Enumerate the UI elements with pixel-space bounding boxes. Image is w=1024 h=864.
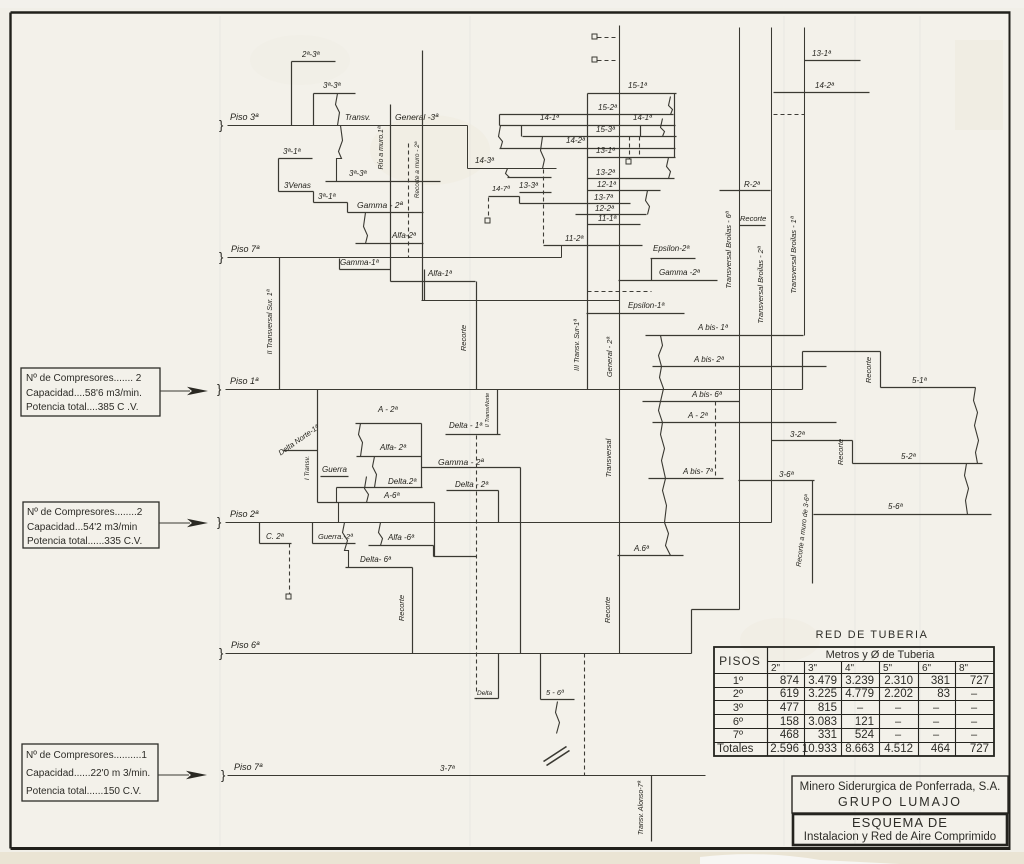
svg-text:–: – bbox=[971, 716, 978, 728]
wire 13-2 bbox=[588, 178, 675, 180]
svg-text:A - 2ª: A - 2ª bbox=[377, 405, 399, 414]
svg-text:2ª-3ª: 2ª-3ª bbox=[301, 50, 321, 59]
svg-text:–: – bbox=[971, 688, 978, 700]
wire 3-2 bbox=[772, 440, 853, 442]
wire vert 2-3 to piso3 bbox=[291, 62, 293, 126]
border frame bbox=[11, 11, 1011, 13]
wire vert rio a muro bbox=[390, 105, 392, 282]
wire branch 2-3 bbox=[292, 61, 336, 63]
svg-text:7º: 7º bbox=[733, 729, 743, 741]
svg-text:–: – bbox=[895, 716, 902, 728]
dashed drop 2 bbox=[639, 137, 641, 158]
svg-text:Gamma - 2ª: Gamma - 2ª bbox=[438, 457, 485, 467]
wire a bis-2 bbox=[653, 366, 827, 368]
svg-text:Piso 3ª: Piso 3ª bbox=[230, 112, 259, 122]
svg-text:13-1ª: 13-1ª bbox=[812, 49, 832, 58]
svg-text:13-7ª: 13-7ª bbox=[594, 193, 614, 202]
wire general-2 / transversal long vertical bbox=[619, 26, 621, 654]
svg-text:Transv. Alonso-7ª: Transv. Alonso-7ª bbox=[638, 780, 645, 835]
svg-text:13-2ª: 13-2ª bbox=[596, 168, 616, 177]
wire vert delta-1 bbox=[497, 390, 499, 435]
wire 3-6 bbox=[739, 480, 815, 482]
svg-text:12-2ª: 12-2ª bbox=[595, 204, 615, 213]
wire branch 3-1 bbox=[279, 158, 313, 160]
wire piso 7 upper main line bbox=[228, 257, 562, 259]
wire III transv sur vertical (cluster left boundary) bbox=[587, 94, 589, 390]
svg-text:477: 477 bbox=[780, 702, 799, 714]
svg-text:8": 8" bbox=[959, 663, 969, 674]
svg-text:3.083: 3.083 bbox=[808, 716, 837, 728]
wire step bbox=[433, 546, 435, 557]
wire gamma-2 vert long bbox=[520, 468, 522, 654]
svg-text:–: – bbox=[933, 702, 940, 714]
svg-text:Delta.2ª: Delta.2ª bbox=[388, 477, 417, 486]
svg-text:3.239: 3.239 bbox=[845, 675, 874, 687]
svg-text:727: 727 bbox=[970, 743, 989, 755]
svg-text:14-2ª: 14-2ª bbox=[566, 136, 586, 145]
svg-text:3º: 3º bbox=[733, 702, 743, 714]
wire a-6 left bbox=[318, 502, 435, 504]
wire 13-3 bbox=[520, 192, 552, 194]
wire vert 3-3 bbox=[313, 94, 315, 126]
wire vert delta-6 to piso6 bbox=[412, 568, 414, 654]
info box compressors piso 2 bbox=[23, 502, 159, 548]
svg-text:RED DE TUBERIA: RED DE TUBERIA bbox=[816, 629, 929, 641]
zigzag 5-1 to 5-2 bbox=[974, 388, 979, 464]
wire vert to gamma-2 bbox=[347, 203, 349, 213]
svg-text:Capacidad....58'6 m3/min.: Capacidad....58'6 m3/min. bbox=[26, 388, 142, 399]
wire piso1 end step up bbox=[802, 352, 804, 390]
svg-text:11-2ª: 11-2ª bbox=[565, 234, 584, 243]
svg-text:Nº de Compresores..........1: Nº de Compresores..........1 bbox=[26, 750, 147, 761]
svg-text:8.663: 8.663 bbox=[845, 743, 874, 755]
svg-text:Potencia total......335 C.V.: Potencia total......335 C.V. bbox=[27, 536, 142, 547]
svg-text:5 - 6ª: 5 - 6ª bbox=[546, 688, 564, 697]
svg-text:524: 524 bbox=[855, 729, 875, 741]
svg-text:Guerra: Guerra bbox=[322, 465, 347, 474]
svg-text:4.512: 4.512 bbox=[884, 743, 913, 755]
wire step horizontal bbox=[803, 351, 881, 353]
svg-text:Piso 2ª: Piso 2ª bbox=[230, 509, 259, 519]
svg-text:Potencia total......150 C.V.: Potencia total......150 C.V. bbox=[26, 786, 141, 797]
delta flag below piso 6 bbox=[498, 654, 500, 699]
wire 11-1 bbox=[588, 224, 641, 226]
svg-text:A - 2ª: A - 2ª bbox=[687, 411, 709, 420]
svg-text:Gamma -2ª: Gamma -2ª bbox=[659, 268, 701, 277]
wire vert delta-2 mid bbox=[498, 491, 500, 523]
wire branch 3-3 lower bbox=[326, 181, 441, 183]
svg-text:5-6ª: 5-6ª bbox=[888, 502, 904, 511]
wire delta-2 mid bbox=[447, 490, 499, 492]
wire 15-1 bbox=[588, 93, 677, 95]
svg-text:3ª-1ª: 3ª-1ª bbox=[318, 192, 337, 201]
wire gamma-2 mid bbox=[422, 467, 521, 469]
wire 12-2 bbox=[576, 214, 647, 216]
wire branch 3venas bbox=[279, 191, 314, 193]
svg-text:468: 468 bbox=[780, 729, 799, 741]
cluster left-side joints bbox=[499, 115, 501, 126]
wire guerra-2 bbox=[313, 543, 356, 545]
zigzag a-branch riser bbox=[659, 336, 671, 556]
svg-text:Transversal Broilas - 6ª: Transversal Broilas - 6ª bbox=[724, 211, 733, 288]
wire alfa-6 bbox=[369, 545, 434, 547]
wire step down bbox=[880, 352, 882, 388]
wire right vert a2-alfa2-delta2 bbox=[421, 424, 423, 488]
wire a bis-7 bbox=[649, 478, 724, 480]
info box compressors piso 7 bbox=[22, 744, 158, 801]
svg-text:4": 4" bbox=[845, 663, 855, 674]
wire junction to 11-2 bbox=[561, 246, 563, 258]
wire a-2 right bbox=[653, 422, 837, 424]
svg-text:15-2ª: 15-2ª bbox=[598, 103, 618, 112]
svg-text:14-3ª: 14-3ª bbox=[475, 156, 495, 165]
svg-text:3": 3" bbox=[808, 663, 818, 674]
svg-text:Nº de Compresores....... 2: Nº de Compresores....... 2 bbox=[26, 373, 142, 384]
wire 5-1 bbox=[881, 387, 976, 389]
dashed stub top 1 bbox=[598, 37, 618, 39]
svg-text:A.6ª: A.6ª bbox=[633, 544, 650, 553]
svg-text:121: 121 bbox=[855, 716, 874, 728]
wire 11-2 bbox=[544, 245, 643, 247]
svg-text:14-2ª: 14-2ª bbox=[815, 81, 835, 90]
zigzag alfa-2 to delta-2 bbox=[373, 457, 377, 488]
svg-text:Delta: Delta bbox=[477, 690, 493, 697]
dashed piso6 to piso7 bbox=[584, 654, 586, 776]
svg-text:3-6ª: 3-6ª bbox=[779, 470, 795, 479]
svg-text:874: 874 bbox=[780, 675, 800, 687]
wire recorte a muro de 3-6 vertical bbox=[812, 481, 814, 584]
zigzag 12-1 to 12-2 bbox=[646, 191, 650, 215]
open end slant mark bbox=[544, 747, 567, 762]
arrow to piso 7 bbox=[158, 774, 189, 776]
svg-text:–: – bbox=[933, 716, 940, 728]
zigzag a-2 to alfa-2 bbox=[359, 424, 363, 457]
wire vert epsilon to gamma bbox=[651, 259, 653, 281]
svg-text:15-3ª: 15-3ª bbox=[596, 125, 616, 134]
dashed a bis-6 to a bis-7 bbox=[715, 402, 717, 479]
title block company bbox=[792, 776, 1008, 813]
wire transversal broilas-1 vertical bbox=[804, 28, 806, 336]
svg-text:13-3ª: 13-3ª bbox=[519, 181, 539, 190]
wire branch gamma-2 upper bbox=[348, 212, 424, 214]
wire delta norte stub bbox=[284, 450, 318, 452]
svg-text:Alfa -6ª: Alfa -6ª bbox=[387, 533, 415, 542]
wire vert step to 300 bbox=[424, 270, 426, 301]
svg-text:Delta - 1ª: Delta - 1ª bbox=[449, 421, 483, 430]
svg-text:6º: 6º bbox=[733, 716, 743, 728]
wire vert 3-2 to 5-2 bbox=[852, 441, 854, 464]
svg-text:PISOS: PISOS bbox=[719, 654, 761, 668]
wire recorte stub bbox=[740, 225, 766, 227]
svg-text:Recorte: Recorte bbox=[740, 214, 766, 223]
wire a-6 right bbox=[618, 555, 684, 557]
wire transversal broilas-6 vertical bbox=[739, 28, 741, 610]
svg-text:381: 381 bbox=[931, 675, 950, 687]
dashed recorte a muro 2 bbox=[408, 144, 410, 258]
wire branch 3-1 second bbox=[314, 202, 348, 204]
svg-text:–: – bbox=[895, 729, 902, 741]
svg-text:Gamma - 2ª: Gamma - 2ª bbox=[357, 200, 404, 210]
wire delta-2 left bbox=[337, 487, 423, 489]
svg-text:Potencia total....385 C .V.: Potencia total....385 C .V. bbox=[26, 402, 138, 413]
svg-text:Recorte: Recorte bbox=[397, 595, 406, 621]
svg-text:Alfa-1ª: Alfa-1ª bbox=[427, 269, 453, 278]
dashed 14-7 drop bbox=[488, 198, 490, 219]
svg-text:Delta- 6ª: Delta- 6ª bbox=[360, 555, 392, 564]
dashed vertical cluster left bbox=[543, 170, 545, 246]
branch C-2 bbox=[259, 523, 261, 544]
svg-text:Recorte: Recorte bbox=[836, 439, 845, 465]
svg-text:12-1ª: 12-1ª bbox=[597, 180, 617, 189]
wire piso 6 main line bbox=[226, 653, 692, 655]
wire I transv vertical bbox=[317, 390, 319, 503]
wire vert 3-1 to 3venas bbox=[278, 159, 280, 192]
svg-text:13-1ª: 13-1ª bbox=[596, 146, 616, 155]
wire piso 1 main line bbox=[226, 389, 803, 391]
svg-text:–: – bbox=[895, 702, 902, 714]
step from transversal broilas-6 down to piso 6 bbox=[692, 609, 740, 611]
svg-text:14-7ª: 14-7ª bbox=[492, 184, 510, 193]
svg-text:Recorte: Recorte bbox=[459, 325, 468, 351]
svg-text:II TransvNorte: II TransvNorte bbox=[485, 393, 491, 427]
underline guerra bbox=[321, 476, 349, 478]
dashed horizontal y291 bbox=[588, 291, 652, 293]
svg-text:2.310: 2.310 bbox=[884, 675, 913, 687]
svg-text:Alfa-2ª: Alfa-2ª bbox=[391, 231, 417, 240]
wire epsilon-1 bbox=[587, 313, 685, 315]
transv alonso-7 vertical bbox=[651, 776, 653, 842]
svg-text:Transversal Broilas - 1ª: Transversal Broilas - 1ª bbox=[789, 216, 798, 293]
svg-text:}: } bbox=[219, 646, 224, 661]
svg-text:General -3ª: General -3ª bbox=[395, 112, 439, 122]
wire 5-2 bbox=[853, 463, 983, 465]
svg-text:158: 158 bbox=[780, 716, 799, 728]
zigzag piso3 to 3-3 lower bbox=[337, 126, 343, 182]
svg-text:619: 619 bbox=[780, 688, 799, 700]
svg-text:815: 815 bbox=[818, 702, 837, 714]
wire 14-3 line bbox=[468, 168, 557, 170]
wire vert a-6 down bbox=[434, 503, 436, 557]
svg-text:}: } bbox=[217, 515, 222, 530]
svg-text:Piso 1ª: Piso 1ª bbox=[230, 376, 259, 386]
svg-text:14-1ª: 14-1ª bbox=[540, 113, 560, 122]
svg-text:Minero Siderurgica de Ponfe: Minero Siderurgica de Ponferrada, S.A. bbox=[800, 781, 1001, 793]
dashed stub top 2 bbox=[598, 60, 618, 62]
svg-text:1º: 1º bbox=[733, 675, 743, 687]
svg-text:Instalacion y Red de Aire Com: Instalacion y Red de Aire Comprimido bbox=[804, 831, 996, 843]
svg-text:Transversal: Transversal bbox=[604, 438, 613, 477]
svg-text:2.596: 2.596 bbox=[770, 743, 799, 755]
svg-text:Nº de Compresores........2: Nº de Compresores........2 bbox=[27, 507, 143, 518]
svg-text:Guerra.-2ª: Guerra.-2ª bbox=[318, 532, 353, 541]
wire R-2 bbox=[720, 190, 771, 192]
svg-text:2": 2" bbox=[771, 663, 781, 674]
svg-text:464: 464 bbox=[931, 743, 951, 755]
svg-text:6": 6" bbox=[922, 663, 932, 674]
zigzag guerra to a-6 bbox=[365, 477, 369, 503]
svg-text:3Venas: 3Venas bbox=[284, 181, 311, 190]
svg-text:Delta - 2ª: Delta - 2ª bbox=[455, 480, 489, 489]
svg-text:Transv.: Transv. bbox=[345, 113, 370, 122]
wire 14-2 top right bbox=[774, 92, 870, 94]
wire horizontal y300 bbox=[422, 300, 620, 302]
svg-text:GRUPO LUMAJO: GRUPO LUMAJO bbox=[838, 795, 962, 809]
svg-text:Piso 7ª: Piso 7ª bbox=[231, 244, 260, 254]
wire recorte vertical bbox=[476, 282, 478, 390]
zigzag guerra to delta-6 bbox=[343, 523, 349, 568]
svg-text:83: 83 bbox=[937, 688, 950, 700]
wire branch 3-3 bbox=[314, 93, 356, 95]
wire step horiz bbox=[434, 556, 477, 558]
svg-text:5-1ª: 5-1ª bbox=[912, 376, 928, 385]
dashed central vertical bbox=[476, 436, 478, 695]
cluster right-side joints bbox=[674, 94, 676, 158]
svg-text:A bis- 2ª: A bis- 2ª bbox=[693, 355, 725, 364]
svg-text:3ª-3ª: 3ª-3ª bbox=[349, 169, 368, 178]
svg-text:3-2ª: 3-2ª bbox=[790, 430, 806, 439]
dashed link bbox=[774, 114, 805, 116]
wire transversal broilas-2 vertical bbox=[771, 28, 773, 523]
wire 12-1 bbox=[588, 190, 661, 192]
wire a bis-1 bbox=[646, 335, 804, 337]
zigzag 5-2 to 5-6 bbox=[965, 464, 969, 515]
svg-text:III Transv. Sur-1ª: III Transv. Sur-1ª bbox=[574, 319, 581, 371]
svg-text:–: – bbox=[857, 702, 864, 714]
wire delta-1 bbox=[446, 434, 501, 436]
svg-text:2º: 2º bbox=[733, 688, 743, 700]
wire 15-2 bbox=[500, 114, 674, 116]
svg-text:2.202: 2.202 bbox=[884, 688, 913, 700]
svg-text:}: } bbox=[219, 118, 224, 133]
wire step down general-3 bbox=[467, 126, 469, 169]
wire 14-2 bbox=[500, 148, 676, 150]
svg-text:ESQUEMA DE: ESQUEMA DE bbox=[852, 815, 948, 830]
svg-text:Capacidad...54'2 m3/min: Capacidad...54'2 m3/min bbox=[27, 522, 137, 533]
wire II transversal sur vertical bbox=[279, 258, 281, 390]
svg-text:}: } bbox=[217, 382, 222, 397]
wire 5-6 bbox=[814, 514, 992, 516]
wire piso 7 lower main line bbox=[228, 775, 706, 777]
svg-text:Totales: Totales bbox=[717, 743, 754, 755]
svg-text:5": 5" bbox=[883, 663, 893, 674]
svg-text:}: } bbox=[221, 768, 226, 783]
svg-text:–: – bbox=[971, 729, 978, 741]
svg-text:3ª-3ª: 3ª-3ª bbox=[323, 81, 342, 90]
svg-text:Recorte: Recorte bbox=[603, 597, 612, 623]
svg-text:14-1ª: 14-1ª bbox=[633, 113, 653, 122]
wire 15-3 bbox=[523, 136, 677, 138]
svg-text:General - 2ª: General - 2ª bbox=[605, 337, 614, 378]
zigzag 3-3 to piso3 bbox=[336, 94, 340, 126]
wire epsilon-2 bbox=[651, 258, 696, 260]
arrow to piso 1 bbox=[160, 390, 190, 392]
arrow to piso 2 bbox=[159, 522, 190, 524]
svg-text:3ª-1ª: 3ª-1ª bbox=[283, 147, 302, 156]
wire gamma-2 right bbox=[619, 280, 718, 282]
wire delta-6 bbox=[346, 567, 413, 569]
terminal square c-2 bbox=[286, 594, 291, 599]
wire alfa-2 left bbox=[357, 456, 422, 458]
svg-text:}: } bbox=[219, 250, 224, 265]
wire 13-1 top right bbox=[805, 60, 861, 62]
svg-text:Capacidad......22'0 m 3/min.: Capacidad......22'0 m 3/min. bbox=[26, 768, 150, 779]
dashed c-2 drop bbox=[289, 544, 291, 595]
svg-text:10.933: 10.933 bbox=[802, 743, 837, 755]
svg-text:Recorte: Recorte bbox=[864, 357, 873, 383]
svg-text:11-1ª: 11-1ª bbox=[598, 214, 617, 223]
title block drawing name bbox=[793, 814, 1007, 845]
wire vert step bbox=[313, 192, 315, 203]
svg-text:Piso 6ª: Piso 6ª bbox=[231, 640, 260, 650]
dashed drop with square bbox=[629, 137, 631, 160]
wire long vertical left of general bbox=[422, 51, 424, 301]
svg-text:A bis- 6ª: A bis- 6ª bbox=[691, 390, 723, 399]
svg-text:Río a muro.1ª: Río a muro.1ª bbox=[378, 126, 385, 169]
svg-text:A-6ª: A-6ª bbox=[383, 491, 400, 500]
wire a bis-6 bbox=[643, 401, 740, 403]
svg-text:Epsilon-1ª: Epsilon-1ª bbox=[628, 301, 665, 310]
svg-text:Piso 7ª: Piso 7ª bbox=[234, 762, 263, 772]
svg-text:Gamma-1ª: Gamma-1ª bbox=[340, 258, 380, 267]
wire 13-1 bbox=[588, 157, 676, 159]
branch 5-6 below piso 6 bbox=[540, 654, 542, 700]
info box compressors piso 1 bbox=[21, 368, 160, 416]
svg-text:Epsilon-2ª: Epsilon-2ª bbox=[653, 244, 690, 253]
zigzag delta-2 to piso2 bbox=[337, 488, 339, 523]
svg-text:Metros y Ø de Tuberia: Metros y Ø de Tuberia bbox=[826, 649, 936, 661]
svg-text:727: 727 bbox=[970, 675, 989, 687]
wire piso 2 main line bbox=[226, 522, 772, 524]
svg-text:Transversal Broilas - 2ª: Transversal Broilas - 2ª bbox=[756, 246, 765, 323]
svg-text:3.479: 3.479 bbox=[808, 675, 837, 687]
svg-text:A bis- 1ª: A bis- 1ª bbox=[697, 323, 729, 332]
svg-text:R-2ª: R-2ª bbox=[744, 180, 761, 189]
svg-text:331: 331 bbox=[818, 729, 837, 741]
svg-text:3.225: 3.225 bbox=[808, 688, 837, 700]
terminal square 14-7 bbox=[485, 218, 490, 223]
wire piso 3 / general-3 main line bbox=[228, 125, 468, 127]
svg-text:I Transv.: I Transv. bbox=[304, 456, 311, 481]
svg-text:15-1ª: 15-1ª bbox=[628, 81, 648, 90]
svg-text:II Transversal Sur. 1ª: II Transversal Sur. 1ª bbox=[267, 289, 274, 354]
zigzag 5-6 drop bbox=[556, 702, 560, 734]
wire 13-7 bbox=[520, 203, 631, 205]
svg-text:4.779: 4.779 bbox=[845, 688, 874, 700]
svg-text:5-2ª: 5-2ª bbox=[901, 452, 917, 461]
svg-text:C. 2ª: C. 2ª bbox=[266, 532, 285, 541]
wire 14-1 bbox=[500, 125, 676, 127]
wire vert guerra-2 bbox=[312, 523, 314, 544]
wire branch alfa-2 upper bbox=[356, 243, 424, 245]
zigzag gamma to alfa bbox=[364, 213, 368, 244]
svg-text:3-7ª: 3-7ª bbox=[440, 764, 456, 773]
svg-text:–: – bbox=[971, 702, 978, 714]
svg-text:Alfa- 2ª: Alfa- 2ª bbox=[379, 443, 407, 452]
wire a-2 left bbox=[356, 423, 422, 425]
svg-text:Recorte a muro - 2ª: Recorte a muro - 2ª bbox=[414, 141, 421, 198]
zigzag piso2 to alfa-6 bbox=[379, 523, 383, 546]
svg-text:–: – bbox=[933, 729, 940, 741]
svg-text:A bis- 7ª: A bis- 7ª bbox=[682, 467, 714, 476]
